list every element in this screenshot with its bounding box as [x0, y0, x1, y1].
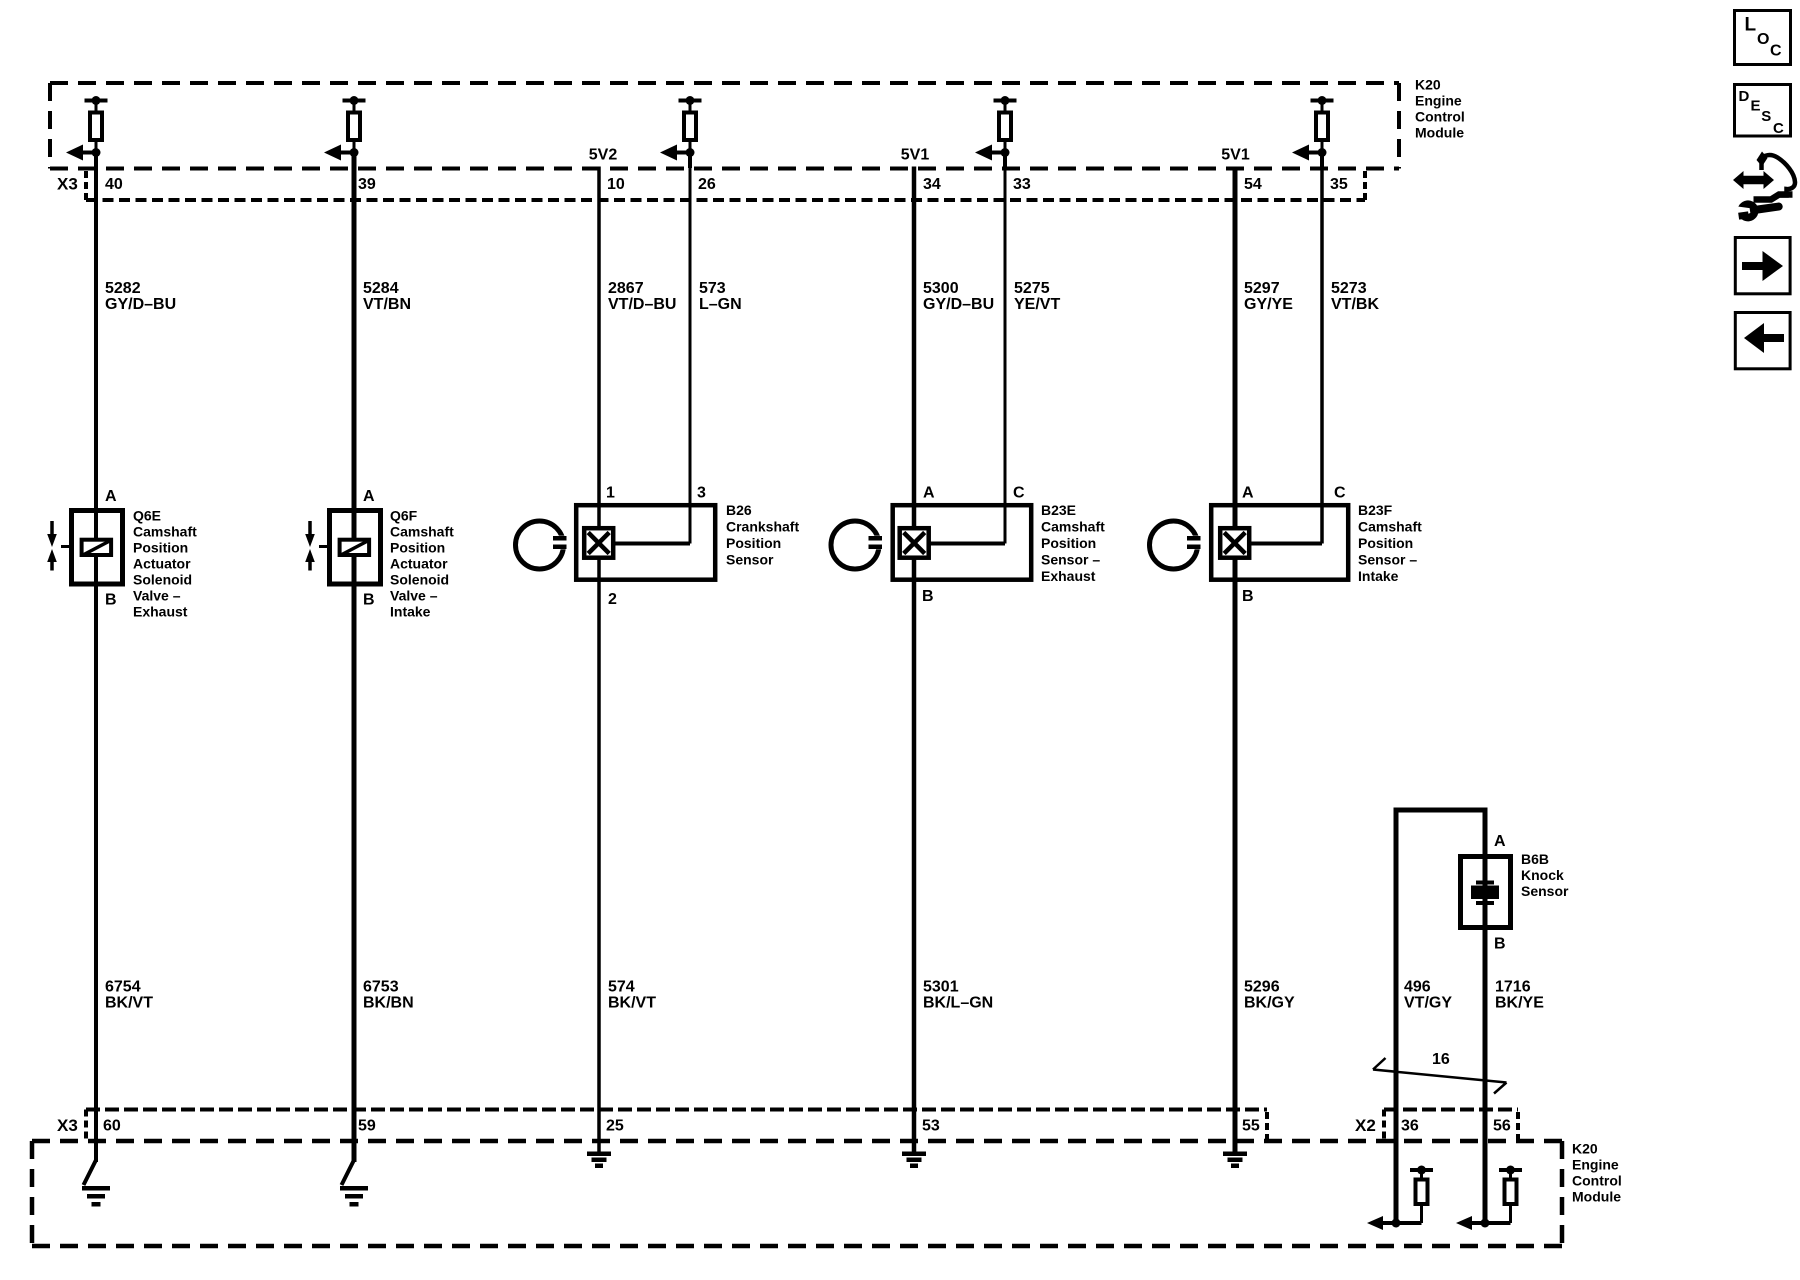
svg-text:6754: 6754 — [105, 979, 141, 996]
svg-text:3: 3 — [697, 485, 706, 502]
svg-text:BK/VT: BK/VT — [608, 995, 656, 1012]
svg-text:S: S — [1761, 108, 1771, 125]
svg-text:Actuator: Actuator — [390, 556, 448, 572]
svg-text:55: 55 — [1242, 1118, 1260, 1135]
svg-text:GY/D–BU: GY/D–BU — [923, 296, 994, 313]
svg-text:BK/L–GN: BK/L–GN — [923, 995, 993, 1012]
svg-text:34: 34 — [923, 176, 941, 193]
svg-text:39: 39 — [358, 176, 376, 193]
svg-text:C: C — [1770, 43, 1782, 60]
svg-text:C: C — [1773, 120, 1784, 137]
svg-text:A: A — [1494, 833, 1506, 850]
svg-text:25: 25 — [606, 1118, 624, 1135]
svg-text:Position: Position — [1358, 535, 1413, 551]
svg-text:B23F: B23F — [1358, 502, 1393, 518]
svg-text:GY/YE: GY/YE — [1244, 296, 1293, 313]
svg-text:574: 574 — [608, 979, 635, 996]
svg-text:40: 40 — [105, 176, 123, 193]
svg-text:B23E: B23E — [1041, 502, 1076, 518]
svg-text:O: O — [1757, 31, 1769, 48]
svg-text:Module: Module — [1572, 1189, 1621, 1205]
svg-text:Engine: Engine — [1572, 1157, 1619, 1173]
svg-text:Module: Module — [1415, 125, 1464, 141]
svg-text:D: D — [1739, 88, 1750, 105]
svg-text:Position: Position — [133, 540, 188, 556]
svg-text:GY/D–BU: GY/D–BU — [105, 296, 176, 313]
svg-text:5284: 5284 — [363, 280, 399, 297]
svg-text:Position: Position — [390, 540, 445, 556]
svg-text:Crankshaft: Crankshaft — [726, 519, 799, 535]
svg-text:5296: 5296 — [1244, 979, 1280, 996]
svg-text:60: 60 — [103, 1118, 121, 1135]
svg-text:2867: 2867 — [608, 280, 644, 297]
svg-text:5297: 5297 — [1244, 280, 1280, 297]
svg-text:Position: Position — [726, 535, 781, 551]
svg-text:1: 1 — [606, 485, 615, 502]
svg-text:Position: Position — [1041, 535, 1096, 551]
svg-text:496: 496 — [1404, 979, 1431, 996]
svg-text:C: C — [1334, 485, 1346, 502]
svg-text:B: B — [1494, 936, 1506, 953]
svg-text:A: A — [1242, 485, 1254, 502]
svg-text:5V1: 5V1 — [901, 147, 930, 164]
svg-text:Intake: Intake — [1358, 568, 1399, 584]
svg-text:BK/VT: BK/VT — [105, 995, 153, 1012]
svg-text:54: 54 — [1244, 176, 1262, 193]
svg-text:B26: B26 — [726, 502, 752, 518]
svg-text:Camshaft: Camshaft — [1041, 519, 1105, 535]
svg-text:Intake: Intake — [390, 604, 431, 620]
svg-text:53: 53 — [922, 1118, 940, 1135]
svg-text:BK/BN: BK/BN — [363, 995, 414, 1012]
svg-text:1716: 1716 — [1495, 979, 1531, 996]
svg-text:Control: Control — [1415, 109, 1465, 125]
svg-text:2: 2 — [608, 591, 617, 608]
svg-text:B: B — [1242, 588, 1254, 605]
svg-text:573: 573 — [699, 280, 726, 297]
svg-text:59: 59 — [358, 1118, 376, 1135]
svg-text:B: B — [363, 592, 375, 609]
svg-text:Engine: Engine — [1415, 93, 1462, 109]
svg-text:K20: K20 — [1572, 1141, 1598, 1157]
svg-text:Sensor –: Sensor – — [1358, 552, 1417, 568]
svg-text:X3: X3 — [57, 175, 78, 194]
svg-text:Actuator: Actuator — [133, 556, 191, 572]
svg-text:Knock: Knock — [1521, 867, 1564, 883]
svg-text:Q6F: Q6F — [390, 508, 418, 524]
svg-text:5300: 5300 — [923, 280, 959, 297]
svg-text:33: 33 — [1013, 176, 1031, 193]
svg-text:B6B: B6B — [1521, 851, 1549, 867]
svg-text:Valve –: Valve – — [133, 588, 181, 604]
svg-text:Camshaft: Camshaft — [390, 524, 454, 540]
svg-text:K20: K20 — [1415, 77, 1441, 93]
svg-text:C: C — [1013, 485, 1025, 502]
svg-text:X2: X2 — [1355, 1116, 1376, 1135]
svg-text:A: A — [923, 485, 935, 502]
svg-text:B: B — [922, 588, 934, 605]
svg-text:36: 36 — [1401, 1118, 1419, 1135]
svg-text:5282: 5282 — [105, 280, 141, 297]
svg-text:VT/D–BU: VT/D–BU — [608, 296, 676, 313]
svg-text:5275: 5275 — [1014, 280, 1050, 297]
svg-text:L–GN: L–GN — [699, 296, 742, 313]
svg-text:YE/VT: YE/VT — [1014, 296, 1060, 313]
svg-text:Sensor –: Sensor – — [1041, 552, 1100, 568]
svg-text:A: A — [105, 488, 117, 505]
svg-text:5273: 5273 — [1331, 280, 1367, 297]
svg-text:6753: 6753 — [363, 979, 399, 996]
svg-text:35: 35 — [1330, 176, 1348, 193]
svg-text:5301: 5301 — [923, 979, 959, 996]
svg-text:Control: Control — [1572, 1173, 1622, 1189]
svg-text:Exhaust: Exhaust — [133, 604, 188, 620]
svg-text:A: A — [363, 488, 375, 505]
svg-text:Sensor: Sensor — [1521, 883, 1569, 899]
svg-text:E: E — [1751, 97, 1761, 114]
svg-text:Solenoid: Solenoid — [133, 572, 192, 588]
svg-text:Valve –: Valve – — [390, 588, 438, 604]
svg-text:Q6E: Q6E — [133, 508, 161, 524]
svg-text:VT/BK: VT/BK — [1331, 296, 1379, 313]
svg-text:Exhaust: Exhaust — [1041, 568, 1096, 584]
svg-text:5V2: 5V2 — [589, 147, 618, 164]
svg-text:X3: X3 — [57, 1116, 78, 1135]
svg-text:56: 56 — [1493, 1118, 1511, 1135]
svg-text:BK/GY: BK/GY — [1244, 995, 1295, 1012]
svg-text:BK/YE: BK/YE — [1495, 995, 1544, 1012]
svg-text:Sensor: Sensor — [726, 552, 774, 568]
svg-text:16: 16 — [1432, 1051, 1450, 1068]
svg-text:5V1: 5V1 — [1221, 147, 1250, 164]
svg-text:Camshaft: Camshaft — [1358, 519, 1422, 535]
svg-text:26: 26 — [698, 176, 716, 193]
svg-text:10: 10 — [607, 176, 625, 193]
svg-text:VT/BN: VT/BN — [363, 296, 411, 313]
svg-text:Solenoid: Solenoid — [390, 572, 449, 588]
svg-text:VT/GY: VT/GY — [1404, 995, 1452, 1012]
svg-text:B: B — [105, 592, 117, 609]
svg-text:Camshaft: Camshaft — [133, 524, 197, 540]
svg-text:L: L — [1745, 15, 1757, 36]
